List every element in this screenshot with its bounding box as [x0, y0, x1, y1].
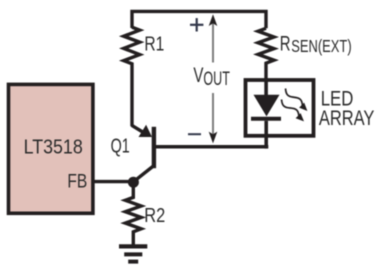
label RSEN(EXT) — [280, 32, 352, 57]
LED array box — [246, 80, 314, 136]
svg-text:ARRAY: ARRAY — [319, 106, 375, 129]
svg-text:V: V — [193, 62, 204, 86]
resistor R1 — [124, 27, 140, 126]
label LED ARRAY — [319, 88, 375, 130]
LED emission arrows — [282, 89, 308, 122]
svg-text:FB: FB — [67, 170, 87, 192]
label R1 — [144, 32, 164, 55]
label R2 — [144, 203, 165, 226]
wire Q1 base to LED return — [156, 145, 268, 149]
label VOUT — [193, 62, 230, 89]
ground — [119, 246, 147, 261]
wire top rail — [132, 11, 266, 28]
wire RSEN into LED — [264, 79, 268, 97]
node FB junction — [128, 177, 139, 188]
transistor Q1 — [132, 125, 156, 182]
svg-text:LT3518: LT3518 — [24, 137, 83, 159]
resistor RSEN(EXT) — [258, 28, 274, 79]
vout plus sign — [190, 18, 203, 31]
LED D1 — [251, 95, 281, 149]
vout minus sign — [188, 133, 201, 135]
svg-text:SEN(EXT): SEN(EXT) — [291, 37, 351, 57]
svg-text:R: R — [280, 32, 291, 55]
IC U1 LT3518 — [9, 84, 93, 213]
pin FB — [67, 170, 87, 192]
svg-text:R2: R2 — [144, 203, 165, 226]
resistor R2 — [125, 182, 141, 245]
svg-text:R1: R1 — [144, 32, 164, 55]
svg-text:Q1: Q1 — [111, 134, 130, 157]
svg-text:OUT: OUT — [203, 68, 230, 89]
wire FB to node — [92, 180, 135, 183]
label Q1 — [111, 134, 130, 157]
vout arrow — [209, 14, 218, 143]
